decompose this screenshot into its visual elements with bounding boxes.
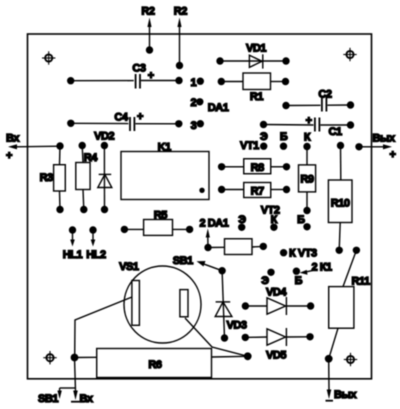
resistor R8 bbox=[218, 159, 290, 174]
svg-text:К: К bbox=[304, 131, 311, 143]
node HL1 bbox=[63, 226, 83, 261]
transistor VT2 bbox=[238, 204, 311, 231]
svg-text:C2: C2 bbox=[318, 88, 331, 100]
resistor R7 bbox=[218, 183, 290, 198]
transistor VT1 bbox=[240, 131, 311, 152]
svg-text:+: + bbox=[148, 70, 154, 82]
svg-text:Вх: Вх bbox=[80, 393, 94, 405]
svg-text:VD5: VD5 bbox=[266, 350, 286, 362]
svg-text:VD1: VD1 bbox=[246, 42, 266, 54]
svg-text:+: + bbox=[306, 115, 312, 127]
resistor R10 bbox=[328, 142, 352, 254]
resistor R9 bbox=[299, 147, 316, 215]
diode VD5 bbox=[242, 328, 314, 362]
svg-text:R10: R10 bbox=[331, 197, 350, 209]
svg-text:1: 1 bbox=[190, 77, 196, 89]
wire VS1 to right junction bbox=[185, 318, 248, 356]
svg-text:R4: R4 bbox=[84, 152, 98, 164]
resistor R11 bbox=[329, 247, 370, 359]
wire VS1 to input junction bbox=[75, 297, 132, 358]
node Вых output top bbox=[355, 132, 396, 161]
svg-text:Б: Б bbox=[280, 131, 288, 143]
node junction right bbox=[244, 352, 252, 360]
node Вых bottom terminal bbox=[325, 355, 358, 401]
svg-text:R9: R9 bbox=[300, 174, 313, 186]
node SB1 pointer bbox=[173, 255, 222, 271]
svg-text:Вх: Вх bbox=[6, 133, 20, 145]
svg-text:К VT3: К VT3 bbox=[289, 247, 317, 259]
node 2 К1 bbox=[300, 262, 332, 275]
capacitor C2 bbox=[282, 88, 354, 111]
mounting hole bottom-right bbox=[344, 353, 357, 366]
resistor R3 bbox=[40, 142, 66, 213]
svg-text:R11: R11 bbox=[352, 276, 371, 288]
svg-text:K1: K1 bbox=[158, 141, 171, 153]
pin 3 DA1 bbox=[191, 120, 204, 132]
relay K1 bbox=[121, 141, 209, 199]
svg-text:R6: R6 bbox=[148, 359, 161, 371]
svg-text:2 DA1: 2 DA1 bbox=[200, 218, 229, 230]
pin 2 DA1 bbox=[190, 97, 203, 109]
svg-text:R2: R2 bbox=[141, 6, 154, 18]
svg-text:Вых: Вых bbox=[373, 132, 396, 144]
svg-text:+: + bbox=[390, 149, 396, 161]
svg-text:VD3: VD3 bbox=[227, 320, 247, 332]
node HL2 bbox=[86, 226, 106, 261]
svg-text:Э: Э bbox=[261, 275, 269, 287]
diode VD3 bbox=[215, 267, 247, 342]
node junction input bbox=[71, 354, 97, 362]
mounting hole top-right bbox=[343, 48, 356, 61]
svg-text:R5: R5 bbox=[154, 209, 167, 221]
capacitor C1 bbox=[260, 115, 354, 138]
capacitor C4 bbox=[67, 111, 182, 131]
svg-text:VS1: VS1 bbox=[119, 261, 139, 273]
svg-text:Б: Б bbox=[297, 214, 305, 226]
resistor R4 bbox=[76, 142, 98, 213]
svg-text:HL2: HL2 bbox=[86, 249, 106, 261]
node SB1 / Вх bottom terminal bbox=[38, 358, 94, 406]
svg-text:SB1: SB1 bbox=[38, 393, 58, 405]
resistor unlabelled bbox=[204, 239, 267, 255]
resistor R6 bbox=[97, 349, 248, 378]
svg-text:+: + bbox=[6, 150, 12, 162]
svg-text:SB1: SB1 bbox=[173, 255, 193, 267]
node R2 lead 2 bbox=[174, 6, 187, 69]
svg-text:C4: C4 bbox=[114, 111, 128, 123]
mounting hole top-left bbox=[42, 51, 55, 64]
svg-text:R1: R1 bbox=[250, 91, 263, 103]
diode VD4 bbox=[242, 286, 315, 315]
svg-text:Э: Э bbox=[260, 131, 268, 143]
svg-text:DA1: DA1 bbox=[208, 102, 229, 114]
thyristor VS1 bbox=[119, 261, 201, 343]
svg-text:2 К1: 2 К1 bbox=[312, 262, 333, 274]
svg-text:3: 3 bbox=[191, 120, 197, 132]
svg-text:VT1: VT1 bbox=[240, 140, 259, 152]
capacitor C3 bbox=[67, 63, 183, 89]
resistor R5 bbox=[121, 209, 194, 235]
svg-text:VD2: VD2 bbox=[94, 131, 114, 143]
svg-text:R2: R2 bbox=[174, 6, 187, 18]
svg-text:R8: R8 bbox=[251, 162, 264, 174]
svg-text:Вых: Вых bbox=[334, 389, 357, 401]
transistor VT3 emitter/base bbox=[261, 268, 302, 288]
svg-text:C3: C3 bbox=[132, 63, 145, 75]
svg-text:R7: R7 bbox=[251, 186, 264, 198]
node К VT3 bbox=[280, 247, 317, 259]
svg-text:Б: Б bbox=[295, 275, 303, 287]
svg-text:C1: C1 bbox=[329, 126, 342, 138]
diode VD2 bbox=[94, 131, 114, 214]
pin 1 DA1 bbox=[190, 77, 204, 89]
mounting hole bottom-left bbox=[43, 351, 56, 364]
node R2 lead 1 bbox=[141, 6, 154, 54]
svg-text:HL1: HL1 bbox=[63, 249, 83, 261]
svg-text:+: + bbox=[137, 111, 143, 123]
node Вх input bbox=[6, 133, 60, 163]
resistor R1 bbox=[218, 73, 290, 103]
diode VD1 bbox=[216, 42, 289, 68]
svg-text:VD4: VD4 bbox=[266, 286, 287, 298]
svg-text:R3: R3 bbox=[40, 172, 53, 184]
svg-text:2: 2 bbox=[190, 97, 196, 109]
board outline bbox=[28, 34, 372, 379]
node 2 DA1 bbox=[200, 218, 229, 248]
